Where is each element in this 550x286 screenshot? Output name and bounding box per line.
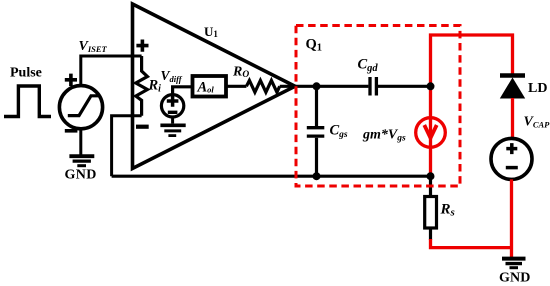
ground GND left <box>69 154 94 158</box>
gain block Aol <box>193 76 227 97</box>
plus marker op-amp <box>136 40 148 52</box>
svg-text:Cgd: Cgd <box>358 57 379 75</box>
resistor Ri <box>136 56 148 116</box>
capacitor Cgd <box>370 77 376 96</box>
wire Vdiff to Aol <box>173 87 193 95</box>
svg-text:gm*Vgs: gm*Vgs <box>362 128 406 144</box>
wire Aol to RO <box>226 85 246 88</box>
minus sign at pulse source <box>65 129 78 133</box>
diode LD <box>500 73 525 78</box>
red wire through current source to bottom node <box>429 118 432 177</box>
wire minus input <box>112 116 142 177</box>
red wire VCAP to ground <box>510 179 513 257</box>
node drain <box>427 82 435 90</box>
resistor Rs <box>425 197 437 229</box>
source Vdiff <box>161 95 183 117</box>
ground under Vdiff <box>160 124 185 128</box>
dependent current source gm*Vgs <box>416 118 446 148</box>
black lead to Rs <box>429 176 432 197</box>
wire VISET: source top to op-amp + input <box>81 56 142 86</box>
wire Vdiff bottom to ground <box>171 117 174 123</box>
transistor box Q1 (dashed) <box>296 26 460 187</box>
node gate <box>313 82 321 90</box>
op-amp U1 <box>133 4 296 169</box>
pulse waveform <box>4 86 51 117</box>
ground GND right <box>502 257 526 261</box>
pulse source (limiter) <box>59 86 102 129</box>
capacitor Cgs <box>307 128 325 136</box>
svg-text:GND: GND <box>499 271 530 286</box>
minus marker op-amp <box>136 125 149 129</box>
node source-bottom left <box>313 172 321 180</box>
wire bottom rail <box>112 175 431 178</box>
wire gate node down to Cgs <box>315 86 318 126</box>
red wire LD to VCAP <box>511 98 514 139</box>
wire RO to gate node <box>280 85 317 88</box>
plus sign at pulse source <box>65 74 77 86</box>
svg-text:Rs: Rs <box>440 202 455 219</box>
node source-bottom right <box>427 172 435 180</box>
wire source bottom to ground <box>79 129 82 155</box>
red wire Rs bottom to ground rail <box>431 239 512 248</box>
wire Cgd to drain node <box>378 85 431 88</box>
svg-text:Pulse: Pulse <box>10 66 42 81</box>
source VCAP <box>491 138 532 179</box>
svg-text:GND: GND <box>65 168 97 183</box>
red wire drain to LD top <box>431 35 513 118</box>
svg-text:Cgs: Cgs <box>330 123 348 141</box>
svg-text:Q1: Q1 <box>306 37 323 54</box>
svg-text:VCAP: VCAP <box>524 115 550 130</box>
svg-text:LD: LD <box>528 81 547 96</box>
wire Cgs to bottom rail <box>315 138 318 176</box>
svg-text:VISET: VISET <box>79 39 108 54</box>
svg-text:U1: U1 <box>204 24 218 39</box>
wire gate node to Cgd <box>317 85 369 88</box>
wire Rs bottom <box>429 228 432 240</box>
resistor RO <box>246 80 279 92</box>
